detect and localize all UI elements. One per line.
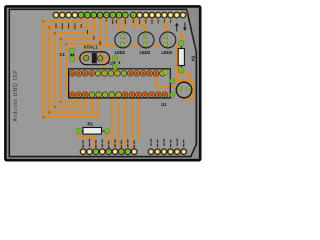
wire stub top-right pad 5 <box>157 18 159 23</box>
wire LED gnd rail 4 <box>176 45 179 47</box>
wire U1 pin to cap left square <box>156 73 179 89</box>
wire rail to R4 top <box>180 33 182 43</box>
op-amp U1 top row pads <box>69 71 165 77</box>
LED3 pads <box>143 35 147 47</box>
capacitor C2 pads <box>113 56 118 69</box>
wire R1 right to header <box>107 133 109 149</box>
wire stub top-right pad 2 <box>139 18 141 23</box>
capacitor C2 outline marks <box>114 62 121 64</box>
node junction bottom 2 <box>48 112 50 114</box>
header bottom-left J3 pads <box>80 149 137 155</box>
wire stub to XTAL1 left pad <box>85 44 87 55</box>
pin name ticks: top-left header <box>56 20 126 46</box>
wire pad to LED4 anode <box>164 18 165 32</box>
board outline <box>9 9 196 156</box>
LED2 pads <box>121 35 125 47</box>
op-amp U1 pin 1 square pad <box>164 70 168 74</box>
window frame <box>5 6 200 160</box>
pin name ticks: bottom-right header <box>150 139 184 147</box>
wire stub top-right pad 7 <box>170 18 172 23</box>
grid <box>0 0 1 1</box>
wire pad AREF to LED3 anode <box>133 18 145 32</box>
node junction bottom 1 <box>43 116 45 118</box>
svg-text:R4: R4 <box>191 56 196 62</box>
wire bus line 1 (pad D4 to IC) <box>44 18 99 118</box>
wire C1 to XTAL1 <box>72 57 86 60</box>
resistor R4 pads <box>179 41 184 73</box>
node junction bottom 3 <box>54 106 56 108</box>
wire bus line 4 <box>61 18 100 102</box>
capacitor C3 pad <box>170 92 175 97</box>
svg-text:R1: R1 <box>88 121 94 126</box>
LED4 outline <box>160 32 176 48</box>
crystal XTAL1 body <box>92 53 97 63</box>
capacitor C4 pads <box>178 87 191 91</box>
svg-text:C2: C2 <box>108 62 113 66</box>
node junction 2 <box>48 27 50 29</box>
svg-text:LED4: LED4 <box>162 50 173 55</box>
wire stub to C1 top pad <box>71 44 73 50</box>
wire cap right wrap <box>184 80 193 100</box>
wire LED rail down to cap area <box>176 45 178 81</box>
svg-text:LED3: LED3 <box>140 50 151 55</box>
resistor R1 body <box>79 128 105 135</box>
wire R4 bottom loop <box>181 70 190 81</box>
wire stub pad D11 <box>118 18 120 32</box>
node junction bottom 4 <box>60 101 62 103</box>
op-amp U1 outline (DIP IC) <box>69 69 171 98</box>
arrow glyph TX <box>175 23 179 32</box>
wire XTAL1 to U1 pin <box>103 58 106 72</box>
svg-text:U1: U1 <box>161 102 167 107</box>
svg-text:Arduino UNO ISP: Arduino UNO ISP <box>13 70 19 122</box>
crystal XTAL1 pads <box>84 55 103 61</box>
node junction 1 <box>43 21 45 23</box>
wire U1 pin drop 2 <box>119 97 122 149</box>
header top-right J2 pads <box>131 12 186 18</box>
capacitor C1 pads <box>69 48 74 61</box>
wire across cap top <box>171 80 191 82</box>
wire R1 left to header <box>79 132 96 149</box>
junction dots on bus corners <box>43 21 68 118</box>
wire U1 pin drop 5 <box>137 97 139 141</box>
svg-text:C1: C1 <box>60 52 66 57</box>
wire stub top-right pad 3 <box>145 18 147 25</box>
wire LED gnd rail <box>106 45 115 47</box>
via pad near cap <box>170 79 175 84</box>
wire cap right square link <box>189 88 193 90</box>
wire bus line 2 <box>49 18 92 113</box>
wire XTAL1 to C2 <box>100 57 115 60</box>
arrow glyph RX <box>183 23 187 32</box>
LED3 outline <box>138 32 154 48</box>
resistor R4 body <box>178 44 184 70</box>
wire U1 pin drop 1 <box>112 97 115 149</box>
wire bus line 3 <box>55 18 94 107</box>
wire bus line 5 <box>66 18 106 96</box>
wire C2 to U1 pin <box>115 67 117 74</box>
capacitor C1 outline marks <box>70 54 74 56</box>
page background <box>0 0 204 169</box>
node junction 5 <box>65 43 67 45</box>
node junction 3 <box>54 32 56 34</box>
crystal XTAL1 outline <box>80 52 110 65</box>
wire stub top-right pad 4 <box>151 18 153 24</box>
wire stub to XTAL1 right pad <box>99 44 101 56</box>
wire stub pad D12 <box>111 18 113 26</box>
LED2 outline <box>115 32 131 48</box>
wire U1 pin to square pad <box>163 72 167 73</box>
op-amp U1 bottom row pads <box>69 92 168 98</box>
wire pad D13 to LED2 anode <box>124 18 126 32</box>
wire LED gnd rail 3 <box>154 45 160 47</box>
wire U1 pin drop 4 <box>132 97 134 149</box>
svg-text:XTAL1: XTAL1 <box>84 45 99 50</box>
svg-text:LED2: LED2 <box>115 50 126 55</box>
pin name ticks: bottom-left header <box>83 139 135 149</box>
node junction 4 <box>60 38 62 40</box>
resistor R1 pads <box>76 128 110 134</box>
pin name ticks: top-right header <box>133 20 171 25</box>
capacitor C4 outline <box>176 82 192 98</box>
LED4 pads <box>164 35 168 47</box>
wire LED gnd rail 2 <box>131 45 138 47</box>
header bottom-right J4 pads <box>148 149 187 155</box>
header top-left J1 pads <box>53 12 128 18</box>
wire U1 pin drop 3 <box>125 97 128 149</box>
